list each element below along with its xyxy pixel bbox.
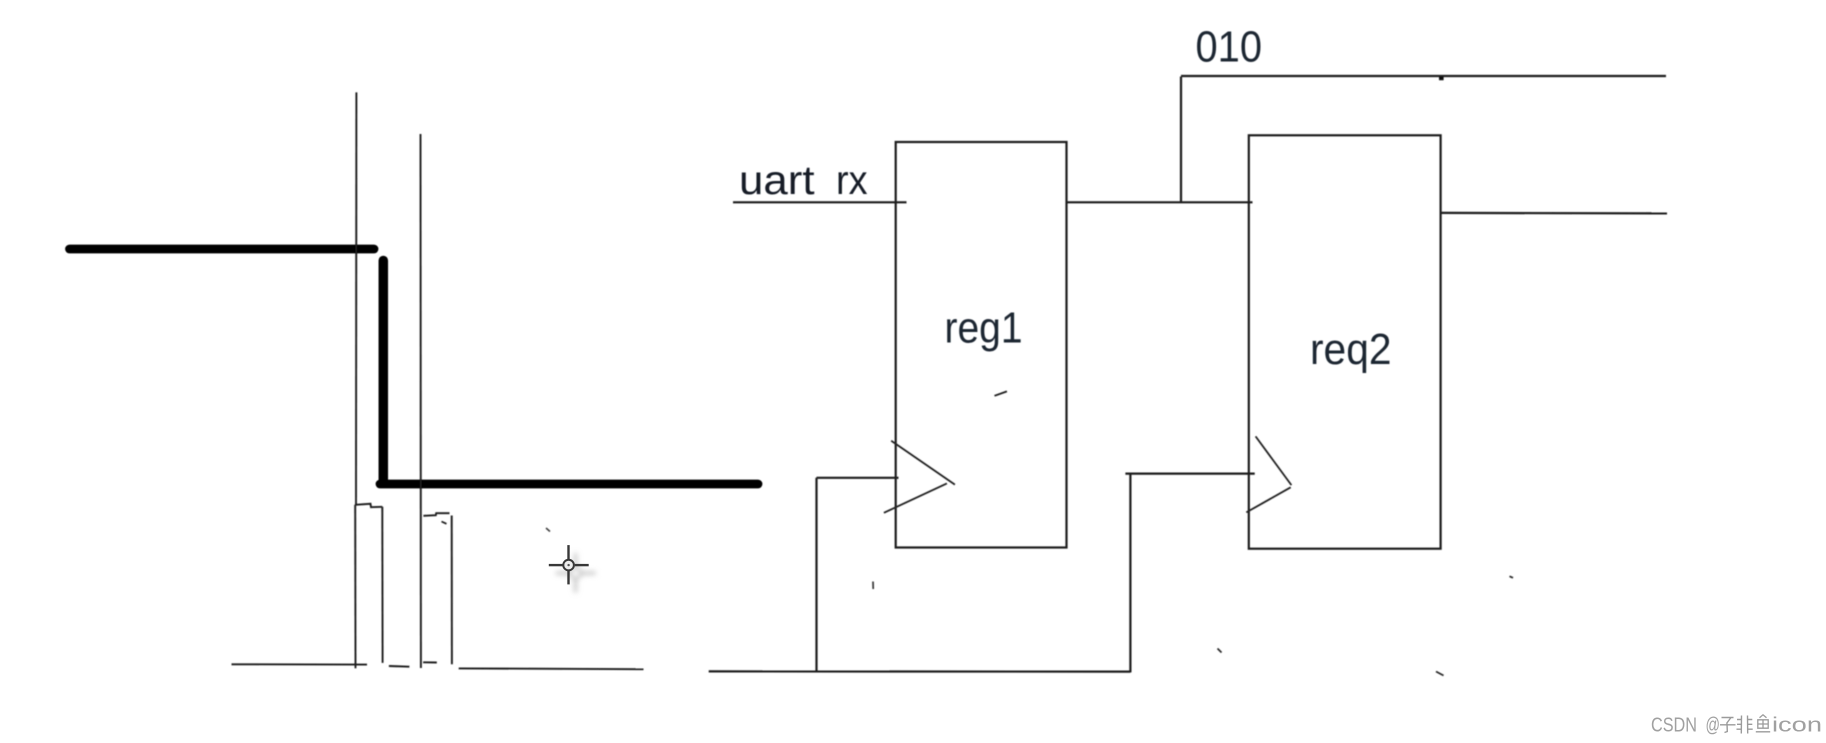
watermark hanzi fei xyxy=(1737,716,1753,734)
wire sketch step at notch top xyxy=(355,504,382,507)
svg-text:010: 010 xyxy=(1196,24,1263,72)
wire sketch notch left vertical xyxy=(354,505,356,669)
mouse cursor crosshair shadow xyxy=(556,553,596,592)
watermark hanzi zi xyxy=(1720,718,1736,733)
svg-text:icon: icon xyxy=(1772,714,1822,737)
wire sketch hook vertical xyxy=(451,516,453,665)
clock chevron reg2 xyxy=(1246,436,1291,512)
stray mark dash inside reg1 xyxy=(995,391,1007,395)
wire thin vertical sketch line second xyxy=(420,134,422,668)
wire sketch hook top xyxy=(423,513,449,516)
mouse cursor crosshair xyxy=(549,545,589,584)
stray mark tick under reg2 xyxy=(1436,672,1444,676)
svg-text:CSDN: CSDN xyxy=(1651,714,1697,737)
svg-text:uart: uart xyxy=(739,157,815,203)
wire baseline segment under notch xyxy=(389,665,410,668)
wire 010 node vertical drop xyxy=(1180,77,1182,203)
stray mark blob under top wire xyxy=(1439,77,1444,80)
wire thick-marker horizontal lower xyxy=(380,480,758,489)
wire clock feed into reg1 chevron xyxy=(817,477,899,479)
stray mark tick above cursor xyxy=(546,528,550,532)
wire thick-marker vertical xyxy=(379,261,389,483)
wire clock bottom run xyxy=(709,670,1131,672)
stray mark dot right of reg2 xyxy=(1510,576,1514,578)
wire top output to right edge xyxy=(1181,75,1666,77)
wire thin vertical sketch line left xyxy=(355,92,357,504)
wire reg2 output to right edge xyxy=(1441,212,1667,215)
wire baseline segment right xyxy=(459,667,644,670)
svg-text:rx: rx xyxy=(836,157,868,203)
wire sketch notch right vertical xyxy=(381,507,383,663)
svg-text:@: @ xyxy=(1706,714,1721,737)
wire clock feed into reg2 chevron xyxy=(1125,473,1254,475)
watermark CSDN xyxy=(1651,714,1822,737)
wire reg1 output to reg2 input xyxy=(1067,201,1253,203)
register reg2 box xyxy=(1249,135,1441,548)
wire clock feedback left vertical xyxy=(815,478,817,672)
wire thick-marker horizontal upper-left xyxy=(70,245,375,254)
wire clock right vertical riser xyxy=(1129,473,1131,672)
svg-text:reg1: reg1 xyxy=(945,304,1023,353)
svg-text:req2: req2 xyxy=(1310,325,1392,374)
stray mark vertical tick near feedback xyxy=(872,582,874,590)
register reg1 box xyxy=(896,142,1067,548)
clock chevron reg1 xyxy=(884,441,955,513)
stray mark small tick in hook xyxy=(442,522,447,524)
wire uart_rx input to reg1 xyxy=(733,201,907,203)
stray mark tick lower middle xyxy=(1218,649,1222,653)
watermark hanzi yu xyxy=(1756,715,1770,732)
wire baseline segment small xyxy=(423,661,437,663)
wire baseline segment far left xyxy=(232,663,368,665)
